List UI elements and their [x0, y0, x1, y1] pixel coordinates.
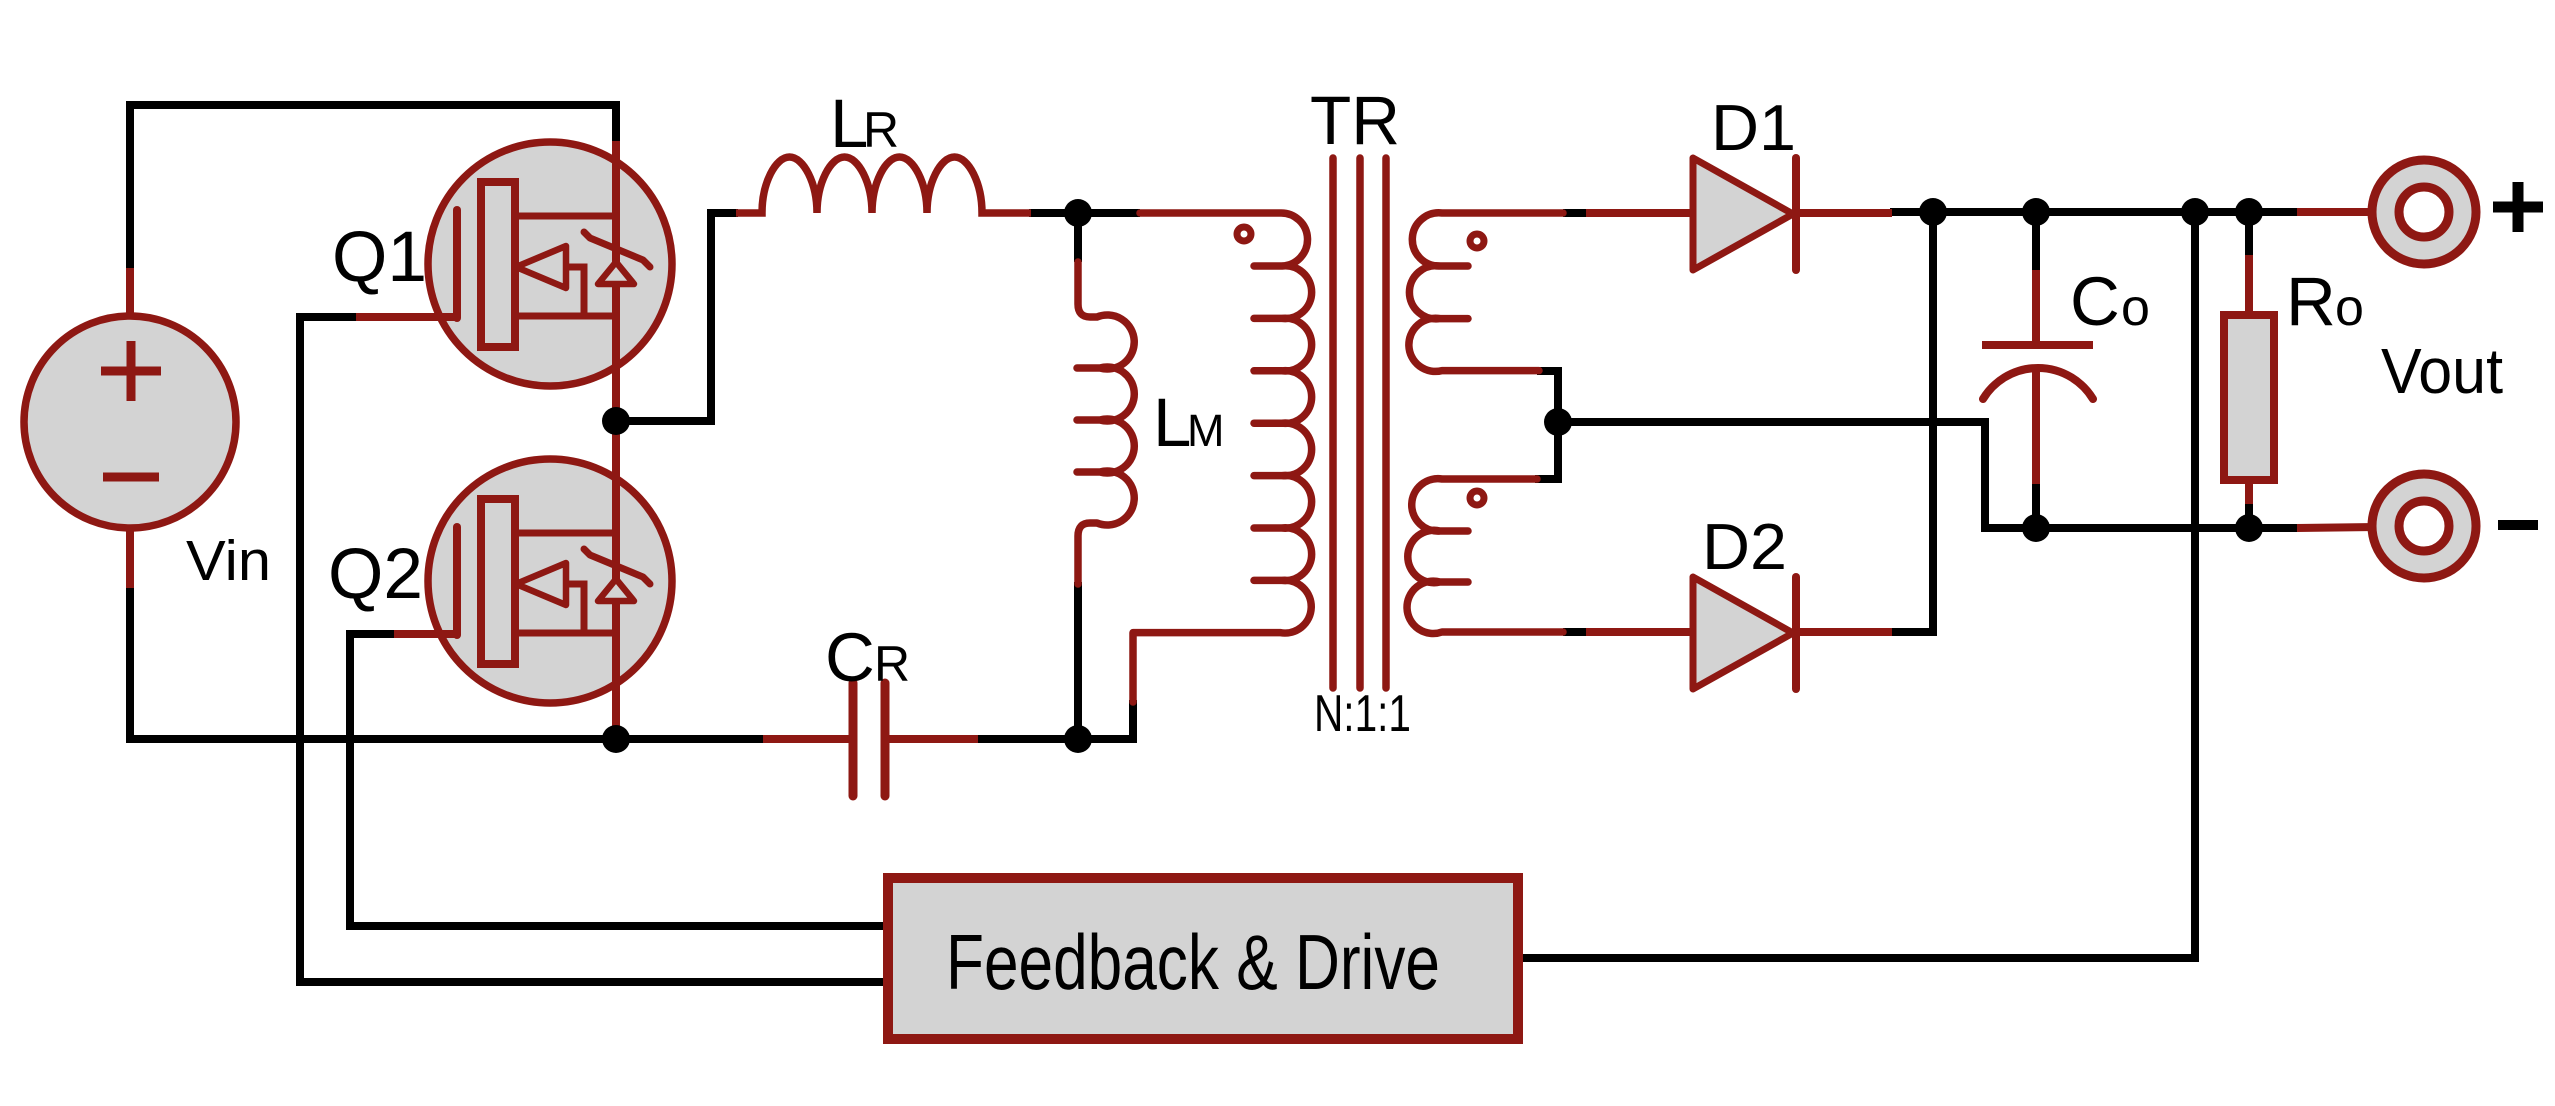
svg-text:o: o [2121, 279, 2150, 337]
svg-text:TR: TR [1310, 82, 1400, 159]
voltage source Vin [24, 268, 236, 588]
capacitor CR [763, 683, 978, 796]
svg-text:L: L [1153, 384, 1191, 461]
svg-text:R: R [2286, 263, 2336, 340]
junction node Ro top [2235, 198, 2263, 226]
core [1333, 158, 1386, 688]
junction node Q2 source bottom rail [602, 725, 630, 753]
secondary lower [1407, 479, 1563, 634]
svg-text:Q2: Q2 [328, 535, 423, 614]
wire secondary top black segment [1563, 209, 1586, 217]
junction node center tap [1544, 408, 1572, 436]
junction node Co bottom [2022, 514, 2050, 542]
junction node Q1-Q2 midpoint [602, 407, 630, 435]
terminal + output [2297, 160, 2476, 264]
wire secondary bottom black segment [1563, 628, 1586, 636]
secondary upper [1409, 213, 1563, 372]
wire D2 cathode up to + rail [1890, 212, 1933, 632]
wire node B to primary bottom [1078, 700, 1133, 739]
inductor LM [1077, 262, 1134, 584]
diode D1 [1586, 158, 1892, 270]
polarity dot primary [1237, 227, 1251, 241]
wire node A region at LR right [1029, 209, 1140, 217]
transistor Q1 [356, 141, 672, 414]
svg-text:o: o [2335, 279, 2364, 337]
feedback and drive block [888, 878, 1518, 1039]
wire Ro top lead black part [2245, 212, 2253, 257]
junction node Ro bottom [2235, 514, 2263, 542]
svg-text:Vout: Vout [2381, 335, 2503, 407]
capacitor Co [1982, 270, 2093, 484]
wire + rail sense line down to feedback box [1523, 212, 2195, 958]
primary winding [1133, 213, 1312, 702]
label - [2498, 520, 2538, 530]
wire center tap to Co bottom rail [1535, 371, 2297, 528]
wire LM bottom lead black part [1074, 582, 1082, 739]
junction node Co top [2022, 198, 2050, 226]
wire Co bottom lead black part [2032, 482, 2040, 528]
transformer TR [1133, 158, 1563, 702]
junction node D1 cathode / D2 rail [1919, 198, 1947, 226]
diode D2 [1586, 577, 1892, 689]
junction node LR-LM-primary [1064, 199, 1092, 227]
wire Q2 gate to feedback box [350, 634, 884, 926]
polarity dot secondary upper [1470, 234, 1484, 248]
svg-text:Vin: Vin [186, 529, 271, 593]
wire D1 cathode to + rail [1890, 208, 2297, 216]
wire Vin- to bottom rail [130, 586, 766, 739]
junction node CR-LM-primary bottom [1064, 725, 1092, 753]
wire Q1 source node to LR left [616, 213, 738, 421]
svg-text:Q1: Q1 [332, 218, 427, 297]
resistor Ro [2224, 255, 2274, 504]
inductor LR [736, 157, 1031, 213]
svg-text:C: C [825, 619, 875, 696]
svg-text:Feedback & Drive: Feedback & Drive [946, 918, 1440, 1006]
wire Q1 gate to feedback box [300, 317, 884, 982]
junction node sense line top [2181, 198, 2209, 226]
svg-text:R: R [874, 636, 910, 692]
svg-text:N:1:1: N:1:1 [1314, 685, 1411, 743]
polarity dot secondary lower [1470, 491, 1484, 505]
wire Ro bottom lead black part [2245, 502, 2253, 528]
wire LM top lead black part [1074, 213, 1082, 262]
transistor Q2 [394, 428, 672, 733]
wire Co top lead black part [2032, 212, 2040, 272]
svg-text:M: M [1187, 405, 1225, 456]
wire CR right to node B [976, 735, 1078, 743]
terminal - output [2297, 474, 2476, 578]
label + [2493, 182, 2543, 232]
svg-text:D1: D1 [1711, 91, 1796, 164]
svg-text:C: C [2070, 263, 2120, 340]
svg-text:D2: D2 [1702, 510, 1787, 583]
wire top-left loop Vin+ to Q1 drain [130, 105, 616, 270]
svg-text:R: R [863, 102, 899, 158]
